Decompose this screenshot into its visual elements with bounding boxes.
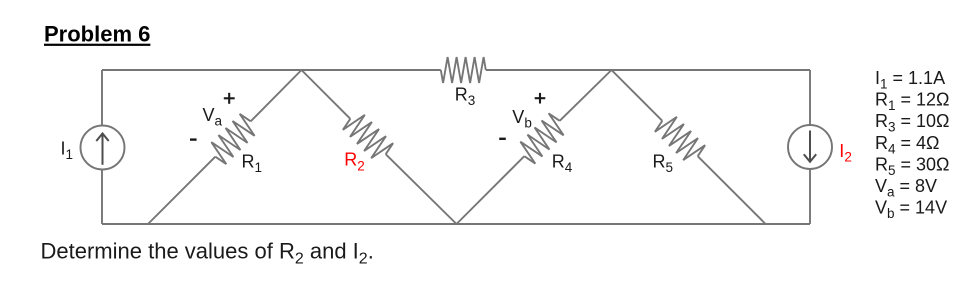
current source I1 arrow [96,134,108,165]
svg-text:R5: R5 [653,152,674,176]
plus sign Vb [535,93,546,104]
svg-text:R3: R3 [455,84,476,108]
wire R2 upper lead (from left apex node) [302,70,351,119]
resistor R5 [655,117,705,160]
wire top right (node at right apex) [486,69,810,71]
svg-text:I2: I2 [839,141,852,165]
svg-text:Vb = 14V: Vb = 14V [875,198,947,222]
wire left vertical (through I1) [101,70,103,224]
svg-text:R4: R4 [552,151,573,175]
svg-text:Va = 8V: Va = 8V [875,176,937,200]
svg-text:Determine the values of R2 and: Determine the values of R2 and I2. [41,238,374,267]
minus sign Va [190,138,197,140]
svg-text:I1: I1 [61,138,74,162]
wire top left (node at left apex) [102,69,441,71]
svg-text:R3 = 10Ω: R3 = 10Ω [875,111,950,135]
wire R1 upper lead (to left apex node) [251,70,302,121]
svg-text:R2: R2 [344,150,365,174]
minus sign Vb [499,138,506,140]
svg-text:R4 = 4Ω: R4 = 4Ω [875,133,940,157]
svg-text:Va: Va [203,105,223,129]
wire R5 lower lead (to bottom rail) [698,156,766,224]
plus sign Va [224,93,235,104]
resistor R4 [520,113,563,163]
resistor R1 [211,114,254,164]
resistor R2 [343,115,393,158]
svg-text:R5 = 30Ω: R5 = 30Ω [875,154,950,178]
current source I1 [81,126,125,170]
resistor R3 [441,57,486,83]
current source I2 arrow [804,131,816,162]
wire R1 lower lead [148,157,215,224]
svg-text:Problem 6: Problem 6 [44,22,150,47]
svg-text:R1: R1 [242,152,263,176]
wire R2 lower lead (to bottom apex node) [386,154,457,224]
wire R4 lower lead (from bottom apex node) [457,156,525,224]
svg-text:I1 = 1.1A: I1 = 1.1A [875,68,945,92]
current source I2 [788,125,832,169]
wire R5 upper lead (from right apex node) [612,70,663,121]
svg-text:R1 = 12Ω: R1 = 12Ω [875,90,950,114]
wire right vertical (through I2) [809,70,811,224]
wire R4 upper lead (to right apex node) [560,70,612,121]
wire bottom rail [102,223,810,225]
svg-text:Vb: Vb [512,107,532,131]
